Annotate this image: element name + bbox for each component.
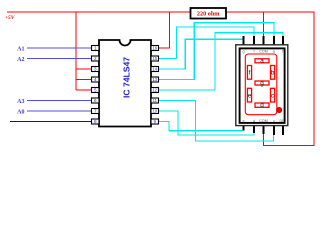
svg-text:a: a xyxy=(260,58,264,65)
svg-text:f: f xyxy=(254,50,255,54)
svg-text:COM: COM xyxy=(259,50,267,54)
svg-text:A1: A1 xyxy=(17,46,24,52)
svg-text:5: 5 xyxy=(94,88,97,93)
svg-text:14: 14 xyxy=(152,67,157,72)
svg-text:2: 2 xyxy=(94,56,97,61)
svg-text:A2: A2 xyxy=(17,57,24,63)
svg-text:3: 3 xyxy=(94,67,97,72)
svg-text:e: e xyxy=(248,92,252,99)
svg-text:A3: A3 xyxy=(17,99,24,105)
svg-text:11: 11 xyxy=(153,98,158,103)
svg-text:IC 74LS47: IC 74LS47 xyxy=(122,57,132,98)
svg-text:12: 12 xyxy=(152,88,157,93)
svg-text:16: 16 xyxy=(152,46,157,51)
svg-text:DP: DP xyxy=(280,119,286,123)
svg-text:g: g xyxy=(260,80,264,87)
svg-text:b: b xyxy=(282,50,284,54)
svg-text:1: 1 xyxy=(94,46,97,51)
svg-text:7: 7 xyxy=(94,109,97,114)
svg-text:4: 4 xyxy=(94,77,97,82)
svg-text:8: 8 xyxy=(94,119,97,124)
svg-text:6: 6 xyxy=(94,98,97,103)
svg-text:b: b xyxy=(271,70,275,77)
svg-text:+5V: +5V xyxy=(5,15,16,21)
svg-text:220 ohm: 220 ohm xyxy=(197,10,220,17)
svg-text:g: g xyxy=(243,50,245,54)
svg-text:d: d xyxy=(260,102,264,109)
svg-text:A0: A0 xyxy=(17,109,24,115)
svg-text:e: e xyxy=(243,119,245,123)
svg-text:d: d xyxy=(253,119,255,123)
svg-text:15: 15 xyxy=(152,56,157,61)
svg-text:13: 13 xyxy=(152,77,157,82)
svg-text:a: a xyxy=(273,50,275,54)
svg-text:f: f xyxy=(249,70,251,77)
svg-text:10: 10 xyxy=(152,109,157,114)
svg-text:c: c xyxy=(273,119,275,123)
svg-text:COM: COM xyxy=(259,119,267,123)
